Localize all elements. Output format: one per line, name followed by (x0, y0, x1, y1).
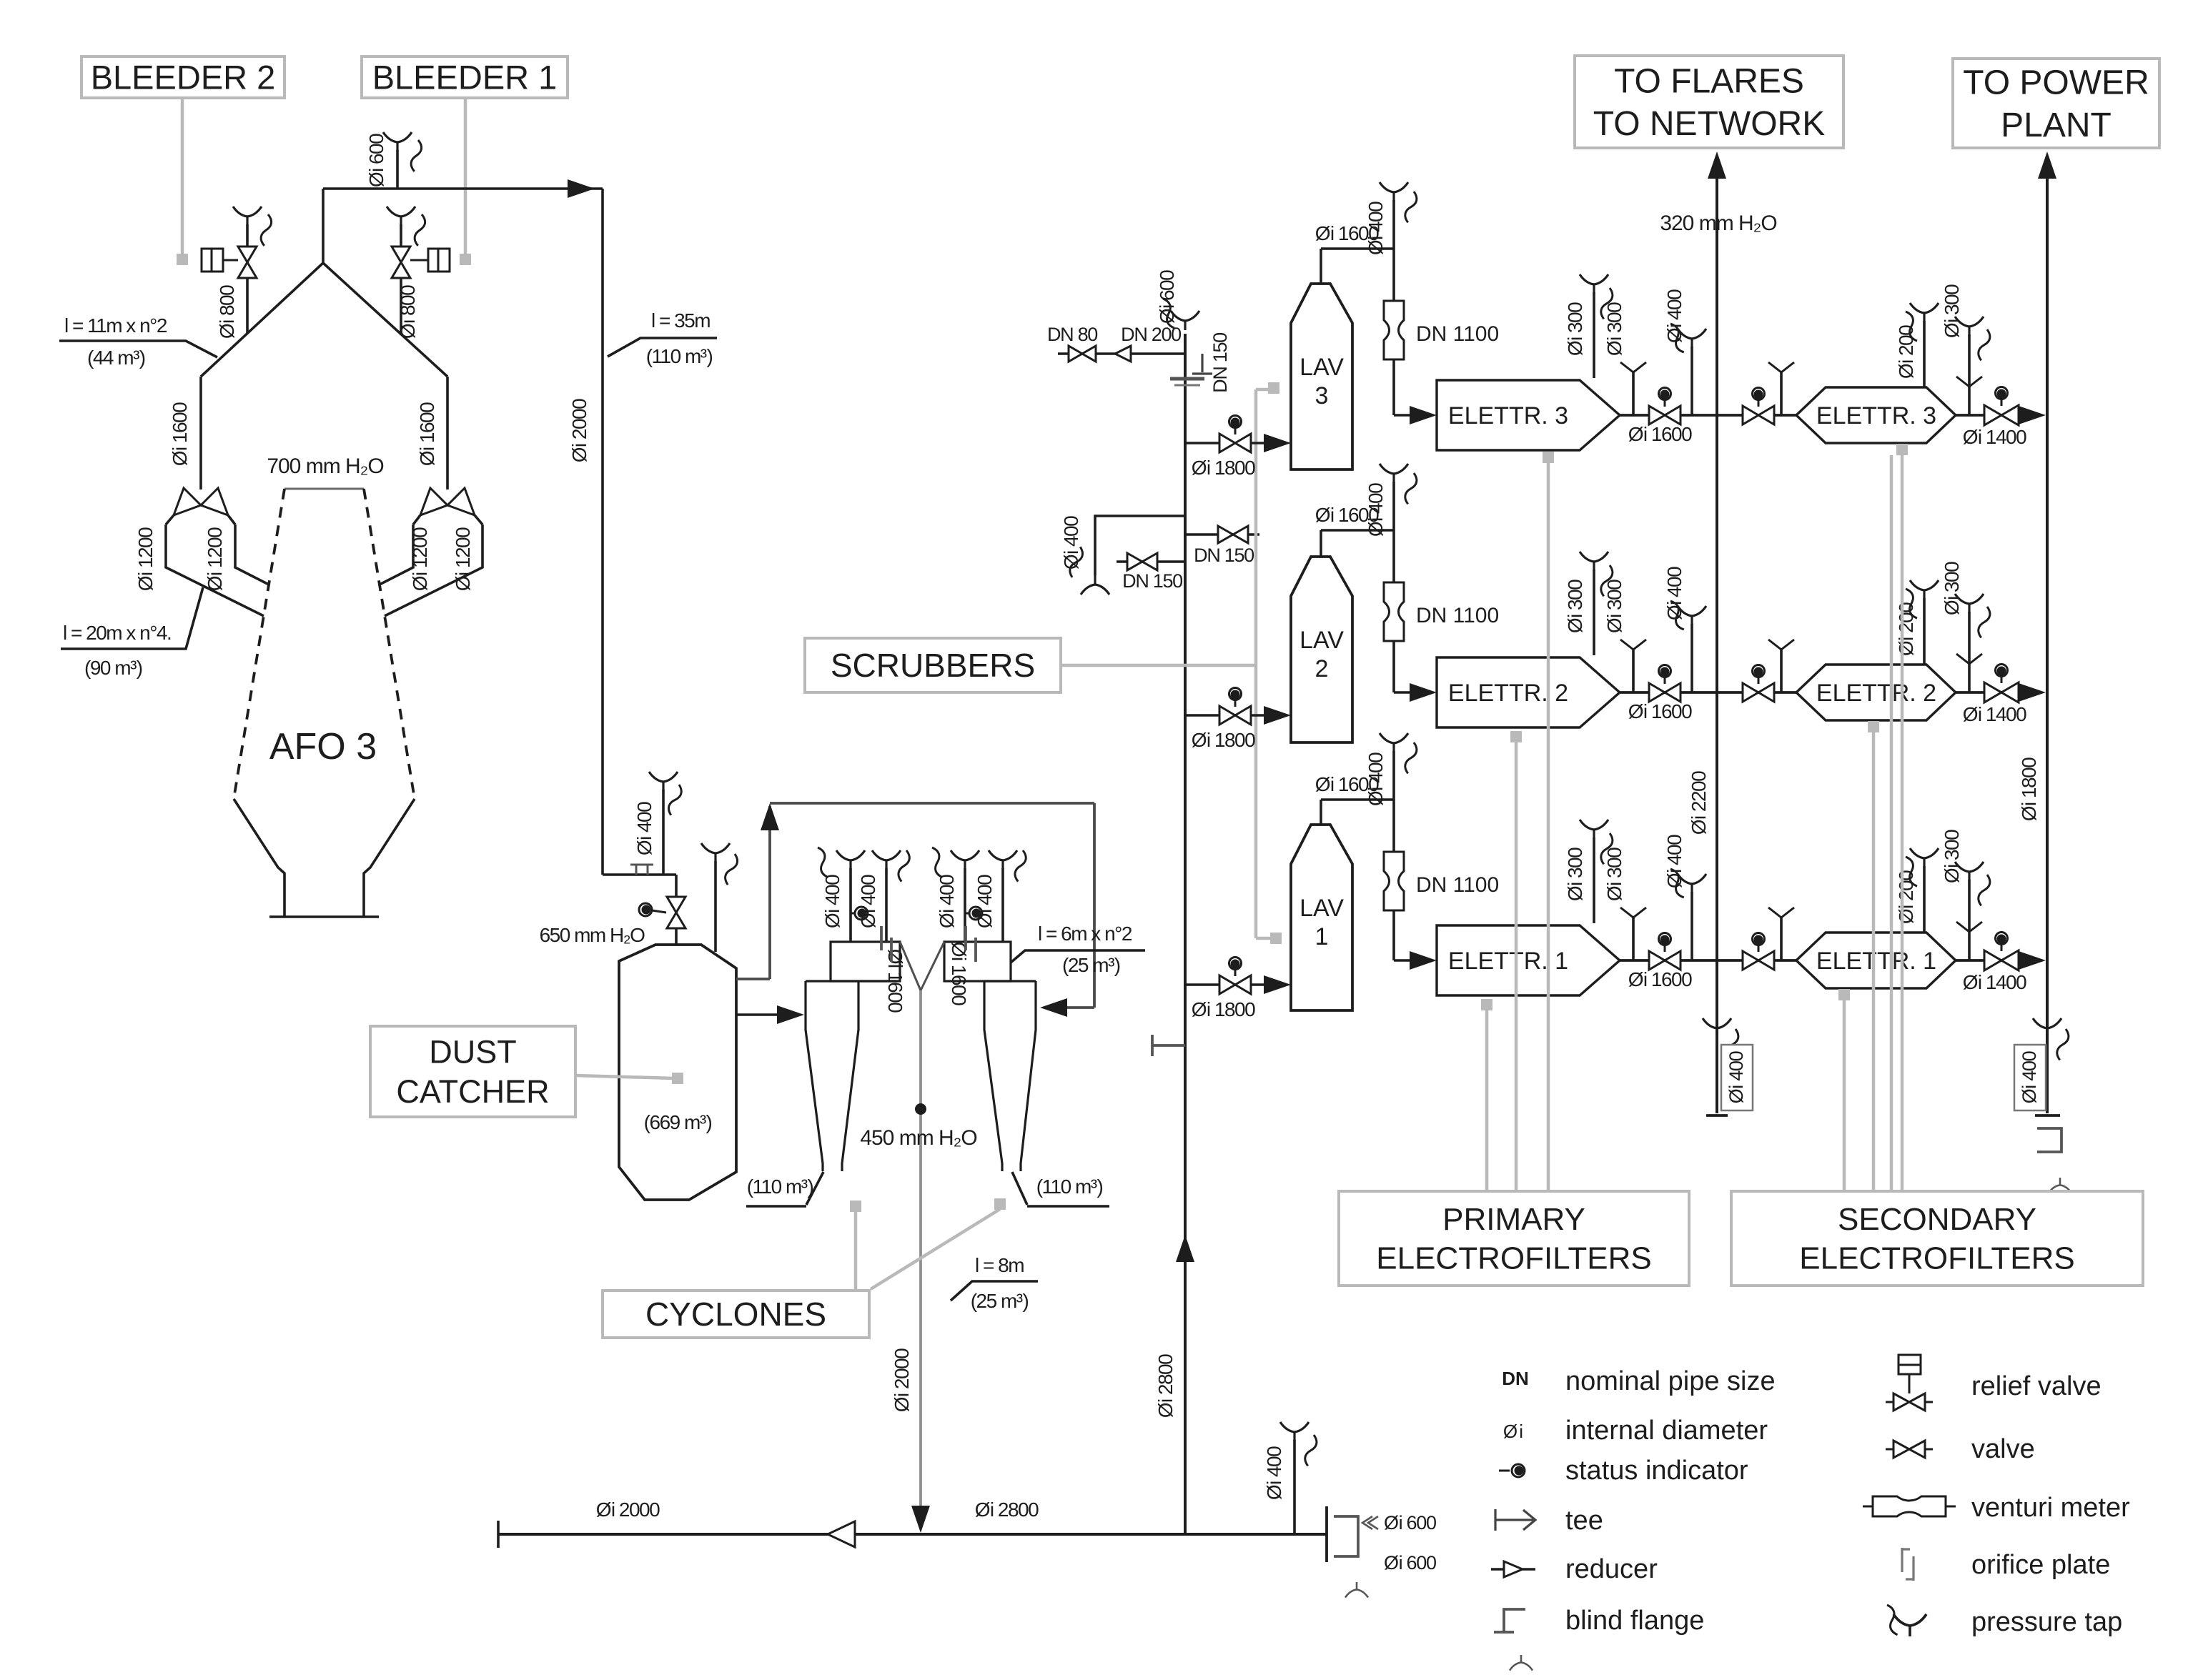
svg-text:relief valve: relief valve (1971, 1371, 2101, 1401)
svg-text:ELECTROFILTERS: ELECTROFILTERS (1799, 1241, 2074, 1276)
wire leader primary row3 (1543, 452, 1554, 463)
wire Oi400 tap riser LAV2 (1392, 482, 1395, 530)
valve row1 left (1649, 951, 1680, 970)
legend status indicator symbol (1499, 1464, 1525, 1477)
pressure tap marks Oi600 (1362, 1516, 1378, 1529)
wire row1 secondary outlet (1956, 959, 2019, 962)
valve dust catcher inlet (667, 897, 685, 928)
wire Oi1200 right-inner leg (380, 525, 413, 585)
electrofilter secondary ELETTR. 1 (1796, 933, 1956, 988)
wire leader primary row1 (1481, 999, 1492, 1010)
wire leader l=6m underline (1011, 950, 1145, 963)
wire dust catcher tap riser (714, 861, 717, 952)
svg-text:Ø i 1600: Ø i 1600 (884, 949, 906, 1013)
wire row2 primary to secondary (1620, 691, 1796, 694)
valve row3 outlet (1984, 405, 2019, 425)
svg-text:(110 m³ ): (110 m³ ) (747, 1175, 813, 1198)
vessel right cyclone body (984, 981, 1036, 1171)
wire Oi300 tap riser on primary 2 (1593, 570, 1595, 655)
label box BLEEDER 2 (81, 56, 284, 98)
svg-text:Ø i 300: Ø i 300 (1941, 830, 1963, 883)
svg-text:Ø i 400: Ø i 400 (2019, 1051, 2040, 1103)
svg-text:Ø i 600: Ø i 600 (1384, 1552, 1436, 1574)
svg-text:Ø i 400: Ø i 400 (1365, 752, 1387, 806)
vessel left cyclone body (806, 981, 896, 1171)
pressure tap bleeder2 (233, 207, 262, 226)
pressure tap LAV1 (1380, 733, 1408, 752)
wire leader secondary row1 b (1890, 455, 1893, 1191)
valve DN150 left (1127, 553, 1157, 570)
junction arrow recirc up (761, 803, 779, 830)
pressure tap Oi600 (383, 132, 412, 151)
wire cyclone tap riser 4 (1001, 868, 1004, 942)
wire main Oi1800 to power plant (2046, 179, 2049, 1113)
wire LAV1 drop to venturi (1392, 800, 1395, 852)
svg-text:Ø i 1200: Ø i 1200 (452, 527, 474, 591)
wire Oi400 tap riser row3 (1690, 347, 1693, 415)
svg-text:Ø i 1800: Ø i 1800 (1192, 729, 1255, 751)
wire LAV3 outlet top (1320, 249, 1322, 284)
wire row2 secondary outlet (1956, 691, 2019, 694)
relief valve body bleeder1 (428, 249, 450, 272)
pressure tap Oi1800 bottom (2033, 1018, 2061, 1038)
svg-text:Ø i 2000: Ø i 2000 (891, 1348, 913, 1412)
blind flange on riser (1170, 377, 1204, 381)
svg-text:Ø i 1200: Ø i 1200 (134, 527, 157, 591)
orifice plate cyclone riser 2 (881, 926, 891, 962)
legend tee symbol (1495, 1509, 1535, 1531)
wire Oi300 chevron riser c row3 (1968, 334, 1971, 415)
legend relief valve symbol (1898, 1355, 1921, 1374)
wire left cyclone discharge (806, 1172, 823, 1205)
svg-text:Ø i 300: Ø i 300 (1564, 580, 1586, 633)
junction arrow into LAV3 (1264, 434, 1291, 452)
svg-text:BLEEDER 1: BLEEDER 1 (372, 58, 558, 96)
svg-text:TO FLARES: TO FLARES (1614, 63, 1804, 101)
svg-text:Ø i 600: Ø i 600 (1156, 270, 1178, 324)
svg-text:Ø i 400: Ø i 400 (1060, 516, 1082, 570)
wire leader l=8m underline (951, 1281, 1038, 1301)
svg-text:Ø i 400: Ø i 400 (1663, 289, 1685, 343)
wire LAV2 outlet top (1320, 530, 1322, 557)
junction arrow into primary elettr 1 (1410, 951, 1437, 970)
wire Oi400 tap riser LAV1 (1392, 751, 1395, 800)
svg-text:l = 35m: l = 35m (651, 309, 710, 332)
svg-text:Ø i 1200: Ø i 1200 (409, 527, 431, 591)
wire LAV3 inlet branch Oi1800 (1185, 442, 1266, 444)
wire Oi1200 right-outer leg (385, 525, 482, 616)
svg-text:BLEEDER 2: BLEEDER 2 (91, 58, 276, 96)
svg-text:Ø i 400: Ø i 400 (936, 875, 958, 928)
wire furnace apex riser (322, 189, 325, 263)
svg-text:Ø i 1400: Ø i 1400 (1963, 703, 2026, 725)
junction arrow row3 into main (2019, 406, 2046, 424)
pressure tap outlet 2 (1955, 594, 1984, 613)
wire top main horizontal Oi2000 (323, 187, 603, 190)
wire row1 primary to secondary (1620, 959, 1796, 962)
valve row1 outlet (1984, 950, 2019, 970)
wire Oi300 tap riser on primary 1 (1593, 837, 1595, 923)
wire Oi200 tap riser secondary 2 (1923, 598, 1926, 664)
svg-text:DN 1100: DN 1100 (1416, 873, 1499, 897)
wire Oi400 tap riser row2 (1690, 624, 1693, 692)
blind flange stub (630, 865, 653, 875)
svg-text:ELETTR. 1: ELETTR. 1 (1816, 948, 1936, 975)
pressure tap row3 mid (1678, 329, 1706, 348)
wire Oi300 chevron riser b row3 (1780, 371, 1783, 415)
legend valve symbol (1886, 1448, 1933, 1451)
svg-text:valve: valve (1971, 1434, 2035, 1464)
check chevron a row2 (1620, 640, 1646, 650)
wire furnace stack dashed right (364, 489, 415, 799)
svg-text:Ø i: Ø i (1503, 1421, 1523, 1442)
svg-text:DN 150: DN 150 (1194, 545, 1254, 566)
wire Oi300 chevron riser b row1 (1780, 916, 1783, 960)
wire LAV3 drop to venturi (1392, 249, 1395, 301)
reducer bottom main (828, 1521, 855, 1547)
venturi meter LAV2 DN1100 (1384, 582, 1404, 641)
wire main Oi2200 to flares (1716, 179, 1718, 1113)
svg-text:ELETTR. 1: ELETTR. 1 (1448, 948, 1568, 975)
label box DUST CATCHER (370, 1026, 575, 1117)
svg-text:ELETTR. 3: ELETTR. 3 (1816, 402, 1936, 429)
svg-text:Ø i 200: Ø i 200 (1895, 870, 1917, 924)
svg-text:LAV: LAV (1299, 354, 1344, 381)
legend orifice plate symbol (1902, 1548, 1914, 1581)
svg-text:Ø i 2200: Ø i 2200 (1688, 771, 1710, 835)
junction arrow row2 into main (2019, 683, 2046, 702)
wire LAV3 feed to elettr (1392, 359, 1395, 415)
svg-text:Ø i 1400: Ø i 1400 (1963, 971, 2026, 993)
svg-text:Ø i 1600: Ø i 1600 (948, 942, 970, 1005)
svg-text:AFO 3: AFO 3 (269, 726, 377, 767)
status indicator cyclone right (965, 907, 982, 920)
wire DN200 branch (1058, 352, 1185, 355)
legend reducer symbol (1491, 1568, 1504, 1571)
venturi meter LAV3 DN1100 (1384, 301, 1404, 359)
wire LAV2 inlet branch Oi1800 (1185, 714, 1266, 717)
svg-text:DN 150: DN 150 (1209, 333, 1231, 393)
svg-text:TO NETWORK: TO NETWORK (1593, 105, 1825, 143)
svg-text:Ø i 1400: Ø i 1400 (1963, 426, 2026, 448)
blind flange Oi1800 bottom (2037, 1128, 2061, 1152)
label box CYCLONES (603, 1291, 869, 1338)
vessel right cyclone collar (944, 942, 1011, 981)
pressure tap cyclone riser 1 (836, 850, 865, 870)
svg-text:700 mm H₂O: 700 mm H₂O (267, 454, 383, 478)
pressure tap outlet 1 (1955, 862, 1984, 881)
orifice plate cyclone riser 4 (966, 926, 976, 962)
wire LAV2 feed to elettr (1392, 641, 1395, 692)
status indicator dust catcher valve (639, 903, 666, 916)
wire LAV1 inlet branch Oi1800 (1185, 983, 1266, 986)
wire DN150 right branch (1185, 533, 1259, 536)
svg-text:320 mm H₂O: 320 mm H₂O (1660, 212, 1776, 235)
valve DN80 (1069, 346, 1096, 362)
svg-text:Ø i 1600: Ø i 1600 (1628, 968, 1692, 990)
label box BLEEDER 1 (362, 56, 568, 98)
svg-text:nominal pipe size: nominal pipe size (1565, 1366, 1776, 1396)
svg-text:3: 3 (1315, 382, 1329, 409)
junction arrow into LAV2 (1264, 706, 1291, 725)
svg-text:Ø i 800: Ø i 800 (397, 285, 419, 339)
svg-text:(90 m³ ): (90 m³ ) (84, 657, 142, 679)
junction arrow top main (568, 179, 595, 198)
wire leader secondary row1 a (1838, 989, 1850, 1000)
svg-text:Ø i 400: Ø i 400 (821, 875, 843, 928)
electrofilter primary ELETTR. 1 (1437, 925, 1620, 995)
junction arrow into primary elettr 2 (1410, 683, 1437, 702)
pressure tap outlet 3 (1955, 317, 1984, 336)
wire cyclone outlet V left (900, 942, 921, 990)
svg-text:PLANT: PLANT (2001, 106, 2112, 144)
wire LAV2 drop to venturi (1392, 530, 1395, 582)
node 450mm measuring point (915, 1103, 926, 1115)
reducer cone left-inner (201, 488, 228, 515)
pressure tap row2 mid (1678, 606, 1706, 625)
node bottom main left end (497, 1521, 500, 1548)
wire downcomer right vertical Oi1600 (446, 377, 449, 489)
junction arrow to power plant (2038, 151, 2056, 179)
wire Oi400 branch (1095, 516, 1185, 575)
wire Oi400 tap riser bottom (1293, 1440, 1296, 1534)
svg-text:Ø i 400: Ø i 400 (1365, 483, 1387, 537)
wire furnace bosh right (364, 799, 415, 917)
wire leader cyclones left (850, 1201, 861, 1212)
svg-text:Ø i 300: Ø i 300 (1941, 562, 1963, 615)
electrofilter primary ELETTR. 2 (1437, 657, 1620, 727)
svg-text:pressure tap: pressure tap (1971, 1607, 2122, 1637)
wire scrubber main riser Oi2800 (1184, 334, 1187, 1534)
blind flange bottom right (1334, 1516, 1358, 1556)
wire Oi300 tap riser on primary 3 (1593, 292, 1595, 378)
svg-text:Ø i 300: Ø i 300 (1603, 302, 1625, 356)
wire recirc horizontal to cyclone (770, 802, 1094, 805)
svg-text:Ø i 400: Ø i 400 (1365, 202, 1387, 255)
svg-text:Ø i 2000: Ø i 2000 (596, 1498, 660, 1521)
wire furnace bosh left (234, 799, 284, 917)
svg-text:Ø i 200: Ø i 200 (1895, 602, 1917, 656)
wire leader l=11m underline (59, 341, 217, 357)
svg-text:(25 m³ ): (25 m³ ) (971, 1290, 1029, 1312)
legend venturi symbol (1863, 1506, 1873, 1508)
check chevron a row3 (1620, 362, 1646, 372)
svg-text:l = 8m: l = 8m (975, 1254, 1024, 1276)
svg-text:reducer: reducer (1565, 1554, 1658, 1584)
wire Oi1200 left-outer leg (166, 525, 264, 616)
svg-text:DN 200: DN 200 (1121, 324, 1181, 345)
wire Oi400 tap riser LAV3 (1392, 200, 1395, 249)
svg-text:ELETTR. 2: ELETTR. 2 (1448, 680, 1568, 707)
check chevron b row2 (1768, 640, 1794, 650)
wire furnace top uptake right slope (323, 263, 447, 377)
pressure tap cyclone riser 2 (872, 850, 901, 870)
svg-text:650 mm H₂O: 650 mm H₂O (540, 924, 645, 946)
check chevron b row3 (1768, 362, 1794, 372)
wire Oi300 chevron riser b row2 (1780, 648, 1783, 692)
pressure tap LAV2 (1380, 464, 1408, 483)
svg-text:ELETTR. 2: ELETTR. 2 (1816, 680, 1936, 707)
wire leader dust catcher (575, 1075, 674, 1078)
svg-text:CYCLONES: CYCLONES (645, 1296, 826, 1333)
relief valve body bleeder2 (202, 249, 223, 272)
wire Oi400 tap riser dust catcher inlet (662, 790, 665, 875)
node Oi1800 bottom end (2035, 1114, 2060, 1117)
label box Oi400 flares main (1721, 1045, 1753, 1110)
svg-text:SECONDARY: SECONDARY (1838, 1202, 2036, 1237)
svg-text:ELETTR. 3: ELETTR. 3 (1448, 402, 1568, 429)
wire downcomer to dust catcher (601, 189, 604, 875)
svg-text:l = 20m x n°4.: l = 20m x n°4. (63, 622, 171, 644)
svg-text:DN: DN (1502, 1368, 1529, 1389)
svg-text:Ø i 300: Ø i 300 (1941, 284, 1963, 338)
check chevron c row2 (1956, 654, 1982, 664)
svg-text:LAV: LAV (1299, 627, 1344, 654)
wire row3 primary to secondary (1620, 414, 1796, 417)
label box SECONDARY ELECTROFILTERS (1731, 1191, 2143, 1286)
junction arrow into left cyclone (777, 1005, 804, 1024)
svg-text:450 mm H₂O: 450 mm H₂O (860, 1126, 976, 1150)
wire leader cyclones right (994, 1198, 1006, 1210)
svg-text:SCRUBBERS: SCRUBBERS (831, 647, 1035, 684)
svg-text:Ø i 1600: Ø i 1600 (169, 402, 191, 466)
svg-text:l = 6m x n°2: l = 6m x n°2 (1038, 923, 1132, 945)
svg-text:Ø i 400: Ø i 400 (633, 802, 655, 855)
wire cyclone outlet duct down (919, 990, 922, 1506)
pressure tap cyclone riser 3 (951, 850, 979, 870)
svg-text:Ø i 1800: Ø i 1800 (1192, 998, 1255, 1020)
svg-text:(44 m³ ): (44 m³ ) (87, 347, 145, 369)
pressure tap dust catcher inlet (649, 772, 678, 791)
wire cyclone tap riser 2 (885, 868, 888, 942)
valve row2 left (1649, 683, 1680, 702)
wire furnace stack dashed left (234, 489, 284, 799)
svg-text:Ø i 1600: Ø i 1600 (1628, 700, 1692, 722)
svg-text:Ø i 400: Ø i 400 (1263, 1446, 1285, 1500)
wire bleeder1 pipe (400, 224, 402, 249)
wire downcomer left vertical Oi1600 (199, 377, 202, 489)
label box TO FLARES TO NETWORK (1575, 56, 1843, 148)
svg-text:2: 2 (1315, 655, 1329, 682)
node bottom main right flange (1325, 1506, 1328, 1562)
wire leader BLEEDER 1 (464, 98, 467, 256)
valve row1 right (1743, 951, 1774, 970)
valve row3 left (1649, 406, 1680, 424)
legend pressure tap symbol (1893, 1614, 1926, 1636)
pressure tap Oi400 branch (1081, 575, 1109, 595)
wire furnace base (269, 915, 379, 918)
svg-text:Ø i 300: Ø i 300 (1564, 848, 1586, 901)
wire cyclone tap riser 1 (849, 868, 852, 942)
valve LAV1 inlet (1219, 975, 1251, 994)
svg-text:Ø i 800: Ø i 800 (216, 285, 238, 339)
wire cyclone outlet V right (921, 942, 944, 990)
check chevron c row3 (1956, 377, 1982, 387)
wire LAV1 outlet top (1320, 800, 1322, 825)
wire dust catcher inlet drop (675, 875, 678, 896)
pressure tap row1 mid (1678, 874, 1706, 893)
wire Oi300 chevron riser a row2 (1632, 648, 1635, 692)
junction arrow to flares (1708, 151, 1726, 179)
svg-text:DN 1100: DN 1100 (1416, 604, 1499, 627)
wire Oi200 tap riser secondary 3 (1923, 321, 1926, 387)
wire Oi1200 left-inner leg (235, 525, 269, 585)
pressure tap Oi2200 bottom (1703, 1018, 1731, 1038)
svg-text:Ø i 400: Ø i 400 (1663, 567, 1685, 620)
junction arrow into primary elettr 3 (1410, 406, 1437, 424)
svg-text:DN 80: DN 80 (1047, 324, 1097, 345)
svg-text:Ø i 1800: Ø i 1800 (1192, 457, 1255, 479)
pressure tap primary box 2 (1580, 552, 1608, 571)
vessel left cyclone collar (831, 942, 900, 981)
svg-text:LAV: LAV (1299, 895, 1344, 922)
svg-text:(110 m³ ): (110 m³ ) (1036, 1175, 1103, 1198)
check chevron c row1 (1956, 922, 1982, 932)
svg-text:Ø i 1800: Ø i 1800 (2018, 757, 2040, 821)
svg-text:Ø i 2000: Ø i 2000 (568, 399, 590, 462)
reducer cone left-outer (174, 488, 201, 515)
relief valve bleeder2 (238, 247, 257, 278)
wire leader secondary row3 (1896, 444, 1908, 455)
wire leader primary row2 (1510, 731, 1522, 742)
valve LAV2 inlet (1219, 706, 1251, 725)
wire Oi300 chevron riser a row1 (1632, 916, 1635, 960)
label box PRIMARY ELECTROFILTERS (1339, 1191, 1689, 1286)
pressure tap secondary box 2 (1910, 580, 1939, 600)
svg-text:PRIMARY: PRIMARY (1442, 1202, 1585, 1237)
valve LAV3 inlet (1219, 434, 1251, 452)
junction arrow into LAV1 (1264, 975, 1291, 994)
svg-text:Ø i 300: Ø i 300 (1564, 302, 1586, 356)
label box SCRUBBERS (805, 638, 1061, 692)
pressure tap riser top (1171, 311, 1199, 330)
node Oi2200 bottom end (1706, 1114, 1728, 1117)
junction arrow row1 into main (2019, 951, 2046, 970)
svg-text:CATCHER: CATCHER (396, 1073, 549, 1110)
wire furnace throat line (284, 488, 364, 490)
venturi meter LAV1 DN1100 (1384, 852, 1404, 910)
pressure tap secondary box 3 (1910, 303, 1939, 322)
wire furnace top uptake left slope (201, 263, 323, 377)
pressure tap bleeder1 (387, 207, 415, 226)
svg-text:Ø i 1600: Ø i 1600 (416, 402, 438, 466)
svg-text:Ø i 300: Ø i 300 (1603, 580, 1625, 633)
wire dust catcher inlet horizontal (603, 873, 676, 876)
reducer cone right-inner (420, 488, 447, 515)
vessel dust catcher (619, 945, 736, 1200)
svg-text:(669 m³ ): (669 m³ ) (644, 1111, 712, 1133)
vessel LAV 1 (1291, 825, 1352, 1010)
pressure tap primary box 1 (1580, 820, 1608, 839)
electrofilter secondary ELETTR. 3 (1796, 387, 1956, 443)
junction arrow riser up (1176, 1235, 1194, 1262)
wire right cyclone discharge (1012, 1172, 1027, 1205)
svg-text:(25 m³ ): (25 m³ ) (1062, 954, 1120, 976)
vessel LAV 2 (1291, 557, 1352, 742)
wire Oi300 chevron riser c row1 (1968, 880, 1971, 960)
valve row3 right (1743, 406, 1774, 424)
junction arrow into right cyclone (1040, 998, 1067, 1017)
wire recirc drop to right cyclone (1093, 803, 1096, 1008)
check chevron b row1 (1768, 908, 1794, 918)
svg-text:DN 150: DN 150 (1122, 570, 1182, 592)
svg-text:Ø i 600: Ø i 600 (1384, 1512, 1436, 1534)
wire LAV1 feed to elettr (1392, 910, 1395, 960)
electrofilter primary ELETTR. 3 (1437, 380, 1620, 450)
wire row3 secondary outlet (1956, 414, 2019, 417)
wire Oi400 tap riser row1 (1690, 892, 1693, 960)
relief valve bleeder1 (392, 247, 410, 278)
